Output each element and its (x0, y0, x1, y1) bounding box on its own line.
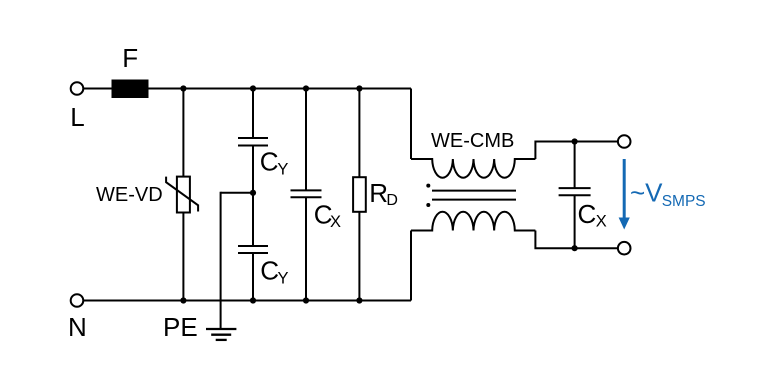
junction CX2 top (572, 138, 578, 144)
svg-text:R: R (369, 178, 388, 208)
junction RD bottom (356, 297, 362, 303)
varistor RV1 body (177, 177, 190, 213)
terminal N (71, 294, 84, 307)
wire CMB top output step (535, 142, 618, 160)
capacitor CY2 plates (238, 245, 268, 247)
CMB phase dot bottom (426, 203, 430, 207)
svg-text:X: X (330, 213, 341, 231)
svg-text:WE-VD: WE-VD (96, 184, 163, 206)
junction CY top (250, 85, 256, 91)
svg-text:C: C (260, 147, 279, 177)
wire PE riser (220, 192, 222, 329)
wire varistor branch bottom (182, 213, 184, 301)
wire bottom rail to CMB riser (410, 231, 412, 301)
inductor CMB top winding (411, 159, 535, 178)
wire varistor branch top (182, 89, 184, 178)
junction varistor top (180, 85, 186, 91)
wire top rail (149, 88, 412, 90)
resistor RD body (353, 177, 366, 212)
fuse F1 (112, 80, 149, 99)
junction CX bottom (303, 297, 309, 303)
junction varistor bottom (180, 297, 186, 303)
wire CX branch bottom (305, 197, 307, 300)
ground PE (206, 328, 236, 330)
terminal L (71, 82, 84, 95)
wire CMB bottom output step (535, 231, 618, 249)
wire RD branch top (358, 89, 360, 178)
wire bottom rail (83, 300, 411, 302)
svg-text:WE-CMB: WE-CMB (431, 130, 514, 152)
wire RD branch bottom (358, 212, 360, 301)
wire CY branch top (252, 89, 254, 139)
capacitor CY1 plates (238, 137, 268, 139)
wire CX branch top (305, 89, 307, 191)
svg-text:X: X (596, 212, 607, 230)
svg-text:L: L (70, 102, 84, 132)
svg-text:~V: ~V (630, 178, 663, 208)
wire CY mid segment (252, 146, 254, 247)
wire CX2 branch bottom (574, 195, 576, 248)
svg-text:Y: Y (278, 270, 289, 288)
junction CX2 bottom (572, 245, 578, 251)
varistor diagonal (166, 177, 198, 212)
svg-text:SMPS: SMPS (662, 193, 706, 210)
capacitor CX2 plates (559, 187, 591, 189)
svg-text:C: C (260, 256, 279, 286)
CMB phase dot top (426, 184, 430, 188)
junction RD top (356, 85, 362, 91)
svg-text:F: F (122, 43, 138, 73)
CMB core lines (432, 190, 516, 192)
wire L to fuse (83, 88, 111, 90)
svg-text:D: D (386, 192, 398, 209)
svg-text:PE: PE (163, 312, 198, 342)
wire CX2 branch top (574, 142, 576, 189)
junction CY mid (250, 190, 256, 196)
capacitor CX1 plates (291, 189, 322, 191)
svg-text:Y: Y (277, 161, 288, 179)
svg-text:C: C (578, 199, 597, 229)
junction CY bottom (250, 297, 256, 303)
terminal output bottom (618, 242, 631, 255)
junction CX top (303, 85, 309, 91)
wire CY branch bottom (252, 253, 254, 301)
wire top rail to CMB riser (410, 89, 412, 160)
svg-text:N: N (68, 312, 87, 342)
inductor CMB bottom winding (411, 212, 535, 231)
arrow VSMPS (623, 159, 626, 220)
wire CY mid to PE riser (221, 192, 253, 194)
terminal output top (618, 135, 631, 148)
